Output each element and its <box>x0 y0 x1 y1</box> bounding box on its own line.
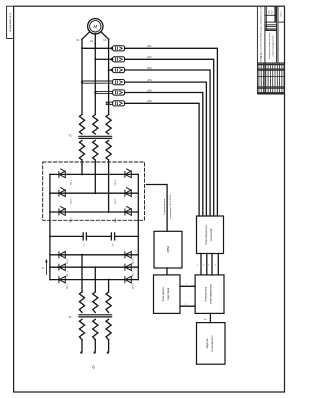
svg-text:VD1.2: VD1.2 <box>67 270 69 276</box>
svg-text:кУ3: кУ3 <box>147 66 152 70</box>
transformer T1 primary winding A <box>79 319 84 339</box>
wire amp-calc 4 <box>217 254 219 275</box>
svg-text:VS1.1: VS1.1 <box>70 179 72 185</box>
transformer T1 secondary winding A <box>79 292 84 312</box>
motor lead phase C <box>101 32 109 40</box>
capacitor rail <box>50 235 138 237</box>
node rail-right-vd2 <box>137 266 139 268</box>
svg-text:Uз: Uз <box>204 319 207 321</box>
title block texts <box>261 6 283 63</box>
diode VD1.2 <box>59 264 65 271</box>
svg-text:VS1.4: VS1.4 <box>115 179 117 185</box>
transformer T2 core <box>79 136 112 138</box>
wire B2 vertical <box>94 267 96 292</box>
svg-text:К управляющим: К управляющим <box>164 198 166 214</box>
sensor W3 body <box>113 67 125 72</box>
title block outline <box>257 6 284 94</box>
diode VD1.5 <box>125 264 131 271</box>
wire pair row5 <box>95 91 112 93</box>
sensor W1 body <box>113 46 125 51</box>
block A1 ZPM <box>154 231 182 268</box>
svg-text:усилителей: усилителей <box>210 228 213 241</box>
svg-text:Лист 1: Лист 1 <box>280 10 282 17</box>
wire amp-calc 3 <box>211 254 213 275</box>
transformer T1 primary winding C <box>106 319 111 339</box>
svg-text:1: 1 <box>215 265 216 267</box>
svg-text:Лист: Лист <box>272 10 274 14</box>
wire ZPM to protection block <box>166 268 168 275</box>
label wire marks <box>197 265 216 267</box>
node rail-right-row2 <box>137 192 139 194</box>
svg-text:VD1.6: VD1.6 <box>133 283 135 289</box>
block intensity setter <box>197 323 226 365</box>
node rail-left-row3 <box>49 211 51 213</box>
svg-text:VD1.5: VD1.5 <box>133 270 135 276</box>
svg-text:VS1.6: VS1.6 <box>115 217 117 223</box>
svg-text:2: 2 <box>203 265 204 267</box>
wire sensor row3 <box>108 69 110 71</box>
sensor W3 arrow <box>109 68 113 72</box>
motor lead phase B <box>94 34 96 44</box>
node row5 tap on phase B <box>94 91 96 93</box>
svg-text:кУ2: кУ2 <box>147 55 152 59</box>
svg-text:электродам VS1.1-VS1.6: электродам VS1.1-VS1.6 <box>170 194 172 219</box>
node row6 tap on phase C <box>108 102 110 104</box>
wire row4 to corner <box>125 82 207 216</box>
current arrow Id <box>45 259 48 275</box>
svg-text:углов управления: углов управления <box>210 284 213 304</box>
wire VS row1 <box>50 173 138 175</box>
wire protection-calc upper <box>180 285 195 287</box>
thyristor VS1.4 <box>125 169 131 178</box>
diode VD1.6 <box>125 276 131 283</box>
transformer T2 secondary winding B <box>93 140 98 160</box>
wire A into bridge <box>81 160 83 174</box>
transformer T1 primary winding B <box>93 319 98 339</box>
wire row6 to corner <box>125 103 200 216</box>
wire sensor row1 <box>82 47 109 49</box>
wire T1 terminal A <box>81 340 83 351</box>
node C2-row3 <box>108 279 110 281</box>
left DC rail <box>49 174 51 279</box>
node rail-right-row3 <box>137 211 139 213</box>
terminal C <box>106 350 109 354</box>
node rail-left-row2 <box>49 192 51 194</box>
sensor W6 body <box>113 101 125 106</box>
thyristor VS1.5 <box>125 188 131 197</box>
diode VD1.1 <box>59 252 65 259</box>
node C-row3 <box>108 211 110 213</box>
block pulse amplifiers <box>197 216 224 254</box>
wire B into bridge <box>94 160 96 193</box>
transformer T2 secondary winding A <box>79 140 84 160</box>
svg-text:VS1.2: VS1.2 <box>70 198 72 204</box>
svg-text:Блок расчета: Блок расчета <box>205 286 208 301</box>
svg-text:интенсивности: интенсивности <box>211 335 214 352</box>
transformer T1 secondary winding B <box>93 292 98 312</box>
sensor W2 body <box>113 57 125 62</box>
terminal A <box>80 350 83 354</box>
wire VD row2 <box>50 266 138 268</box>
thyristor VS1.2 <box>59 188 65 197</box>
svg-text:М: М <box>93 24 97 29</box>
svg-text:Блок защиты: Блок защиты <box>162 287 165 302</box>
wire bridge to ZPM <box>146 185 167 232</box>
node rail-left-vd2 <box>49 266 51 268</box>
wire C2 vertical <box>108 280 110 292</box>
node rail-left-cap <box>49 235 51 237</box>
title block signature grid <box>257 63 284 94</box>
wire VD row1 <box>50 254 138 256</box>
wire phase C vertical <box>108 39 110 114</box>
wire row3 to corner <box>125 70 211 216</box>
wire C into bridge <box>108 160 110 212</box>
diode VD1.4 <box>125 252 131 259</box>
thyristor VS1.6 <box>125 207 131 216</box>
sensor W4 body <box>113 80 125 85</box>
node B-row2 <box>94 192 96 194</box>
wire row2 to corner <box>125 59 214 216</box>
transformer T2 primary winding A <box>79 115 84 135</box>
wire sensor row2 <box>95 58 109 60</box>
wire amp-calc 1 <box>200 254 202 275</box>
left margin box <box>7 6 14 38</box>
dashed enclosure A2 <box>43 162 145 220</box>
wire row1 to corner <box>125 48 218 216</box>
transformer T1 core <box>79 315 112 317</box>
capacitor C1 <box>83 233 86 240</box>
block angle calculation <box>195 275 224 314</box>
svg-text:Схема электрическая: Схема электрическая <box>272 36 274 57</box>
wire T1 terminal B <box>94 340 96 351</box>
svg-text:Задатчик: Задатчик <box>206 337 209 348</box>
wire pair row6 <box>106 102 112 104</box>
capacitor C2 <box>111 233 114 240</box>
sensor W1 arrow <box>109 47 113 51</box>
wire VD row3 <box>50 279 138 281</box>
node rail-right-cap <box>137 235 139 237</box>
wire row5 to corner <box>125 93 203 217</box>
block protection <box>154 275 181 314</box>
svg-text:VD1.3: VD1.3 <box>67 283 69 289</box>
node row4 tap on phase A <box>81 81 83 83</box>
svg-text:УБПВД.АКИП.00.Э3: УБПВД.АКИП.00.Э3 <box>9 12 12 32</box>
svg-text:Т2: Т2 <box>68 134 72 138</box>
wire calc to setter <box>209 313 211 322</box>
svg-text:Устройство плавного пуска: Устройство плавного пуска <box>268 32 271 59</box>
svg-text:УБПВД-ВЦ-С-2-220-10к-УХЛ4 Схем: УБПВД-ВЦ-С-2-220-10к-УХЛ4 Схема электрич… <box>261 6 263 63</box>
svg-text:Т1: Т1 <box>68 315 72 319</box>
motor lead phase A <box>82 32 90 40</box>
svg-text:VD1.4: VD1.4 <box>133 258 135 264</box>
wire phase B vertical <box>94 44 96 115</box>
svg-text:1: 1 <box>186 284 187 286</box>
transformer T2 primary winding B <box>93 115 98 135</box>
node row3 tap on phase C <box>108 69 110 71</box>
thyristor VS1.1 <box>59 169 65 178</box>
wire pair row4 <box>82 81 113 83</box>
thyristor VS1.3 <box>59 207 65 216</box>
transformer T2 secondary winding C <box>106 140 111 160</box>
svg-text:1: 1 <box>197 265 198 267</box>
node row1 tap on phase A <box>81 47 83 49</box>
svg-text:кУ5: кУ5 <box>147 88 152 92</box>
svg-text:VS1.5: VS1.5 <box>115 198 117 204</box>
svg-text:VS1.3: VS1.3 <box>70 217 72 223</box>
sensor W5 body <box>113 90 125 95</box>
wire phase A vertical <box>81 39 83 114</box>
wire T1 terminal C <box>108 340 110 351</box>
svg-text:VD1.1: VD1.1 <box>67 258 69 264</box>
svg-text:тиристоров: тиристоров <box>167 287 170 300</box>
svg-text:ЗПМ: ЗПМ <box>166 246 170 253</box>
wire amp-calc 2 <box>206 254 208 275</box>
motor M1 <box>88 19 103 34</box>
transformer T2 primary winding C <box>106 115 111 135</box>
wire VS row3 <box>50 211 138 213</box>
svg-text:кУ4: кУ4 <box>147 78 152 82</box>
svg-text:кУ6: кУ6 <box>147 99 152 103</box>
right DC rail <box>137 174 139 279</box>
sensor W2 arrow <box>109 58 113 62</box>
wire A2 vertical <box>81 255 83 292</box>
node B2-row2 <box>94 266 96 268</box>
diode VD1.3 <box>59 276 65 283</box>
svg-text:кУ1: кУ1 <box>147 44 152 48</box>
node row2 tap on phase B <box>94 58 96 60</box>
svg-text:2: 2 <box>208 265 209 267</box>
node A2-row1 <box>81 254 83 256</box>
wire protection-calc lower <box>180 305 195 307</box>
svg-text:2: 2 <box>186 304 187 306</box>
node A-row1 <box>81 173 83 175</box>
svg-text:Блок импульсных: Блок импульсных <box>205 224 208 244</box>
transformer T1 secondary winding C <box>106 292 111 312</box>
terminal B <box>93 350 96 354</box>
wire VS row2 <box>50 192 138 194</box>
